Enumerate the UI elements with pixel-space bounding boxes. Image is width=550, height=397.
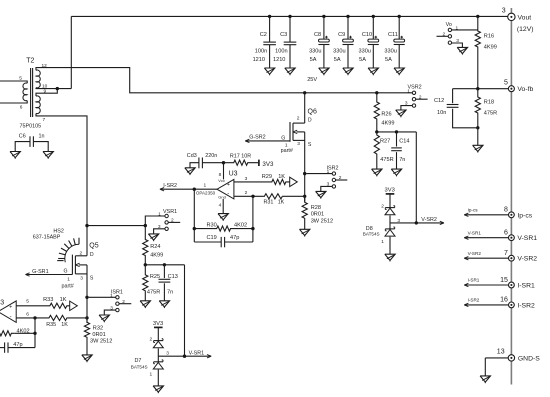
- svg-text:4K99: 4K99: [484, 44, 497, 50]
- wire pin12 net: [36, 68, 412, 93]
- svg-text:Gnd: Gnd: [218, 194, 226, 199]
- ground R27: [372, 169, 382, 176]
- svg-text:8: 8: [504, 207, 508, 214]
- capacitor Cd3 220n: [185, 153, 224, 175]
- svg-text:1: 1: [67, 277, 70, 283]
- svg-text:4K99: 4K99: [381, 120, 394, 126]
- svg-text:5A: 5A: [359, 57, 366, 63]
- ground VSR1: [148, 234, 158, 241]
- svg-text:6: 6: [504, 230, 508, 237]
- svg-text:1K: 1K: [278, 174, 285, 180]
- port 15 I-SR1: [464, 277, 535, 290]
- svg-text:475R: 475R: [147, 290, 160, 296]
- label pin 10: [42, 83, 48, 89]
- svg-text:1210: 1210: [273, 57, 285, 63]
- svg-text:4K99: 4K99: [150, 252, 163, 258]
- resistor R29 1K: [262, 174, 298, 186]
- svg-text:R32: R32: [93, 326, 103, 332]
- wire Q6 source: [304, 132, 306, 202]
- svg-text:-: -: [227, 192, 229, 198]
- svg-text:ISR1: ISR1: [111, 290, 123, 296]
- svg-text:8: 8: [219, 172, 222, 178]
- wire U3 pin8 Vcc: [219, 163, 224, 180]
- svg-text:6: 6: [26, 312, 29, 318]
- wire U3B pin6: [16, 312, 48, 320]
- svg-text:2: 2: [339, 175, 342, 181]
- svg-text:7n: 7n: [167, 290, 173, 296]
- wire U3B pin5: [16, 298, 47, 306]
- wire pin7 to Q5 drain: [36, 114, 87, 256]
- svg-text:C9: C9: [338, 32, 345, 38]
- svg-text:Ip-cs: Ip-cs: [468, 207, 479, 212]
- wire U3 pin3: [234, 176, 268, 182]
- svg-text:1K: 1K: [61, 322, 68, 328]
- svg-text:R31: R31: [264, 199, 274, 205]
- ground C2: [264, 68, 274, 75]
- transistor Q5: [62, 243, 99, 290]
- wire R18 to ground: [477, 128, 479, 146]
- svg-text:3: 3: [245, 176, 248, 182]
- svg-text:Q5: Q5: [89, 243, 98, 250]
- node R31/R28: [303, 195, 306, 198]
- ground R32: [82, 355, 92, 362]
- port 16 I-SR2: [464, 297, 535, 310]
- svg-text:V-SR2: V-SR2: [517, 256, 537, 263]
- label pin 6: [20, 104, 23, 110]
- resistor R16 4K99: [475, 16, 497, 88]
- ground R25: [140, 301, 150, 308]
- svg-text:Ip-cs: Ip-cs: [517, 212, 532, 219]
- svg-text:1: 1: [407, 88, 410, 94]
- bus (sheet connector rail): [510, 8, 512, 385]
- svg-text:1210: 1210: [253, 57, 265, 63]
- svg-text:3: 3: [297, 141, 300, 147]
- heatsink HS2 637-15ABP: [33, 229, 79, 263]
- svg-text:5A: 5A: [385, 57, 392, 63]
- resistor 4K02 and capacitor 47p (U3B feedback): [0, 318, 37, 353]
- svg-text:3V3: 3V3: [153, 321, 163, 327]
- svg-text:3W 2512: 3W 2512: [90, 338, 112, 344]
- svg-text:C3: C3: [280, 32, 287, 38]
- svg-text:330u: 330u: [358, 49, 370, 55]
- node Cd3/R17/pin8: [222, 161, 225, 164]
- svg-text:3: 3: [110, 305, 113, 311]
- capacitor C11 330u: [384, 15, 404, 68]
- jumper VSR2: [401, 84, 428, 110]
- svg-text:V-SR1: V-SR1: [189, 350, 205, 356]
- resistor R33 1K: [43, 297, 77, 311]
- ground C6 right: [43, 152, 53, 159]
- diode D7 BAT54S: [131, 321, 169, 386]
- wire U3 pin1 output / I-SR2: [160, 182, 217, 191]
- ground R28: [300, 229, 310, 236]
- svg-text:2: 2: [245, 190, 248, 196]
- ground C11: [394, 68, 404, 75]
- svg-text:7n: 7n: [399, 157, 405, 163]
- svg-text:1n: 1n: [39, 133, 45, 139]
- ground VSR2: [396, 110, 406, 117]
- svg-text:U3: U3: [229, 171, 238, 178]
- svg-text:R26: R26: [381, 111, 391, 117]
- jumper ISR2: [306, 165, 347, 191]
- svg-text:100n: 100n: [275, 49, 287, 55]
- ground ISR1: [99, 315, 109, 322]
- svg-text:G: G: [64, 269, 68, 275]
- ground Vo jumper: [457, 47, 467, 54]
- wire R16 top junction: [476, 15, 479, 18]
- node R16/R18: [476, 87, 479, 90]
- port 7 V-SR2: [464, 250, 537, 263]
- wire pin5 lead: [0, 81, 27, 83]
- svg-text:+: +: [227, 182, 230, 188]
- ground C3: [285, 68, 295, 75]
- ground C13: [159, 301, 169, 308]
- wire top-rail to transformer center tap: [70, 16, 72, 88]
- ground C14: [391, 169, 401, 176]
- svg-text:3: 3: [502, 7, 506, 14]
- svg-text:10n: 10n: [437, 110, 446, 116]
- capacitor C14 7n: [391, 132, 409, 169]
- svg-text:3: 3: [80, 276, 83, 282]
- node R35/R32: [85, 316, 88, 319]
- wire Q6 gate / G-SR2: [245, 134, 290, 142]
- svg-text:C13: C13: [168, 274, 178, 280]
- svg-text:G-SR2: G-SR2: [249, 134, 265, 140]
- svg-text:100n: 100n: [255, 49, 267, 55]
- svg-text:1: 1: [110, 293, 113, 299]
- svg-text:S: S: [308, 142, 312, 148]
- svg-text:2: 2: [297, 115, 300, 121]
- label pin 7: [43, 117, 46, 123]
- wire to V-SR2 node: [415, 132, 417, 223]
- resistor R28 0R01: [302, 196, 333, 229]
- ground U3 pin4: [218, 214, 228, 221]
- wire Q6 drain: [303, 91, 306, 123]
- svg-text:5A: 5A: [334, 57, 341, 63]
- svg-text:47p: 47p: [230, 235, 239, 241]
- svg-text:I-SR1: I-SR1: [468, 278, 480, 283]
- node R18 bottom: [476, 126, 479, 129]
- svg-text:I-SR2: I-SR2: [468, 298, 480, 303]
- svg-text:2: 2: [381, 204, 384, 210]
- ground C8: [319, 68, 329, 75]
- svg-text:475R: 475R: [484, 110, 497, 116]
- svg-text:2: 2: [171, 217, 174, 223]
- svg-text:475R: 475R: [380, 157, 393, 163]
- svg-text:330u: 330u: [333, 49, 345, 55]
- svg-text:R27: R27: [380, 139, 390, 145]
- svg-text:3: 3: [405, 101, 408, 107]
- svg-text:C2: C2: [260, 32, 267, 38]
- resistor R24 4K99: [143, 226, 164, 265]
- svg-text:1: 1: [158, 212, 161, 218]
- resistor R35 1K: [46, 315, 87, 328]
- svg-text:637-15ABP: 637-15ABP: [33, 234, 61, 240]
- resistor R32 0R01: [84, 318, 112, 355]
- svg-text:+: +: [9, 305, 12, 311]
- svg-text:V-SR1: V-SR1: [517, 235, 537, 242]
- ground D8: [385, 254, 395, 261]
- ground C6 left: [10, 152, 20, 159]
- svg-text:3V3: 3V3: [385, 188, 395, 194]
- svg-text:GND-S: GND-S: [518, 355, 540, 362]
- ground GND-S: [480, 376, 490, 383]
- svg-text:R35: R35: [46, 322, 56, 328]
- svg-text:V-SR2: V-SR2: [468, 251, 482, 256]
- svg-text:OPA2350: OPA2350: [196, 191, 216, 196]
- svg-text:3: 3: [166, 350, 169, 356]
- wire U3 pin2: [234, 190, 264, 198]
- port 13 GND-S: [485, 348, 540, 376]
- svg-text:R30: R30: [207, 223, 217, 229]
- svg-text:1: 1: [327, 169, 330, 175]
- transistor Q6: [281, 109, 317, 155]
- svg-text:3: 3: [158, 224, 161, 230]
- capacitor C2 100n: [253, 15, 276, 68]
- svg-text:C10: C10: [362, 32, 372, 38]
- svg-text:(12V): (12V): [517, 26, 534, 33]
- ground ISR2: [316, 191, 326, 198]
- svg-text:12: 12: [42, 63, 48, 69]
- capacitor C13 7n: [159, 265, 178, 301]
- svg-text:3W 2512: 3W 2512: [311, 218, 333, 224]
- node Q6 source / ISR2: [303, 172, 306, 175]
- svg-text:I-SR2: I-SR2: [517, 302, 535, 309]
- wire Q5 source: [86, 265, 88, 323]
- svg-text:0R01: 0R01: [92, 332, 105, 338]
- svg-text:VSR1: VSR1: [163, 209, 177, 215]
- svg-text:R28: R28: [311, 205, 321, 211]
- svg-text:3V3: 3V3: [262, 161, 274, 168]
- resistor R18 475R: [475, 89, 497, 128]
- svg-text:C8: C8: [314, 32, 321, 38]
- wire V-SR1 feed node: [144, 263, 185, 356]
- svg-text:2: 2: [150, 337, 153, 343]
- svg-text:I-SR1: I-SR1: [517, 283, 535, 290]
- svg-text:1: 1: [381, 239, 384, 245]
- svg-text:75P0105: 75P0105: [20, 124, 42, 130]
- label 25V: [307, 77, 317, 83]
- capacitor C8 330u: [309, 15, 329, 68]
- svg-text:5A: 5A: [310, 57, 317, 63]
- ground D7: [153, 386, 163, 393]
- svg-text:Q6: Q6: [308, 109, 317, 116]
- resistor R31 1K: [264, 194, 305, 206]
- svg-text:1: 1: [204, 182, 207, 188]
- svg-text:5: 5: [26, 298, 29, 304]
- resistor R27 475R: [374, 132, 393, 169]
- svg-text:V-SR1: V-SR1: [468, 230, 482, 235]
- svg-text:Vout: Vout: [518, 14, 532, 21]
- power 3V3 at R17: [259, 160, 274, 168]
- svg-text:R16: R16: [484, 34, 494, 40]
- svg-text:BAT54S: BAT54S: [363, 231, 380, 236]
- svg-text:part#: part#: [62, 283, 74, 289]
- op-amp U3: [196, 171, 238, 200]
- jumper ISR1: [89, 290, 132, 315]
- svg-text:330u: 330u: [309, 49, 321, 55]
- ground R18: [473, 145, 483, 152]
- wire Q5 drain to R24: [85, 224, 147, 227]
- ground C9: [343, 68, 353, 75]
- svg-text:V-SR2: V-SR2: [421, 217, 437, 223]
- capacitor C3 100n: [273, 15, 296, 68]
- svg-text:2: 2: [122, 299, 125, 305]
- label pin 12: [42, 63, 48, 69]
- svg-text:R17 10R: R17 10R: [230, 154, 251, 160]
- svg-text:4K02: 4K02: [17, 328, 30, 334]
- svg-text:C19: C19: [207, 235, 217, 241]
- wire Q5 gate / G-SR1: [25, 269, 72, 276]
- svg-text:R18: R18: [484, 100, 494, 106]
- label pin 5: [19, 76, 22, 82]
- port 5 Vo-fb: [504, 79, 533, 93]
- wire U3 pin4 Gnd: [219, 199, 224, 214]
- wire Vo-fb: [453, 88, 509, 90]
- svg-text:1K: 1K: [60, 297, 67, 303]
- svg-text:R33: R33: [43, 297, 53, 303]
- svg-text:D: D: [308, 117, 312, 123]
- svg-text:R29: R29: [262, 174, 272, 180]
- svg-text:2: 2: [419, 94, 422, 100]
- ground C10: [368, 68, 378, 75]
- svg-text:6: 6: [20, 104, 23, 110]
- node pins 9-10 junction: [56, 87, 59, 90]
- svg-text:3: 3: [327, 182, 330, 188]
- op-amp U3 second half: [0, 300, 16, 323]
- diode D8 BAT54S: [363, 188, 401, 255]
- port 3 Vout: [502, 7, 534, 33]
- svg-text:3: 3: [0, 300, 4, 307]
- wire pin6 lead: [0, 101, 27, 103]
- wire R26 bottom node: [375, 130, 416, 133]
- svg-text:-: -: [10, 314, 12, 320]
- resistor R17 10R: [224, 154, 259, 166]
- svg-text:C6: C6: [19, 133, 26, 139]
- wire pin9 lead: [36, 89, 57, 97]
- svg-text:BAT54S: BAT54S: [131, 365, 148, 370]
- svg-text:S: S: [90, 275, 94, 281]
- svg-text:C12: C12: [434, 98, 444, 104]
- svg-text:C14: C14: [399, 139, 409, 145]
- svg-text:1: 1: [456, 25, 459, 31]
- capacitor C6 1n: [15, 133, 48, 151]
- svg-text:0R01: 0R01: [311, 211, 324, 217]
- svg-text:220n: 220n: [205, 153, 217, 159]
- svg-text:T2: T2: [26, 58, 34, 65]
- svg-text:G-SR1: G-SR1: [32, 269, 48, 275]
- svg-text:5: 5: [504, 79, 508, 86]
- svg-text:C11: C11: [388, 32, 398, 38]
- svg-text:330u: 330u: [384, 49, 396, 55]
- resistor R26 4K99: [374, 91, 394, 132]
- svg-text:16: 16: [500, 297, 508, 304]
- svg-text:R24: R24: [150, 244, 160, 250]
- svg-text:47p: 47p: [13, 342, 22, 348]
- svg-text:Vo: Vo: [446, 22, 452, 28]
- port 6 V-SR1: [464, 230, 537, 243]
- capacitor C9 330u: [333, 15, 353, 68]
- svg-text:2: 2: [80, 250, 83, 256]
- svg-text:7: 7: [504, 250, 508, 257]
- capacitor C10 330u: [358, 15, 378, 68]
- svg-text:D: D: [90, 252, 94, 258]
- svg-text:15: 15: [500, 277, 508, 284]
- resistor R25 475R: [143, 265, 161, 301]
- capacitor C12 10n: [434, 89, 478, 128]
- svg-text:I-SR2: I-SR2: [163, 183, 177, 189]
- node Q5 source / ISR1: [85, 296, 88, 299]
- svg-text:4: 4: [219, 202, 222, 208]
- svg-text:Cd3: Cd3: [187, 153, 197, 159]
- svg-text:Vo-fb: Vo-fb: [517, 86, 533, 93]
- svg-text:7: 7: [43, 117, 46, 123]
- label pin 9: [44, 89, 47, 95]
- svg-text:3: 3: [456, 38, 459, 44]
- jumper Vo: [437, 22, 478, 48]
- svg-text:13: 13: [497, 348, 505, 355]
- wire D7 tap / V-SR1: [158, 350, 211, 358]
- svg-text:2: 2: [443, 31, 446, 37]
- svg-text:1K: 1K: [278, 199, 285, 205]
- wire pin10 lead: [36, 87, 71, 90]
- svg-text:4K02: 4K02: [234, 223, 247, 229]
- svg-text:1: 1: [150, 371, 153, 377]
- wire Vout top rail: [71, 15, 508, 17]
- port 8 Ip-cs: [464, 207, 533, 220]
- jumper VSR1: [145, 209, 180, 234]
- svg-text:part#: part#: [281, 148, 293, 154]
- wire D8 tap / V-SR2: [390, 217, 444, 225]
- svg-text:D7: D7: [135, 358, 142, 364]
- transformer T2 75P0105: [20, 58, 42, 130]
- svg-text:25V: 25V: [307, 77, 317, 83]
- resistor R30 4K02 and capacitor C19 47p: [193, 189, 255, 247]
